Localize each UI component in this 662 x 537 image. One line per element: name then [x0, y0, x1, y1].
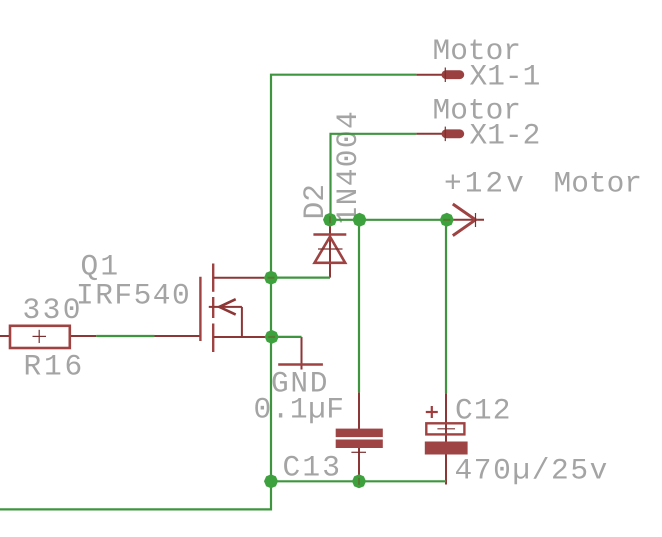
svg-text:R16: R16 — [24, 350, 86, 384]
svg-text:C13: C13 — [283, 451, 343, 485]
svg-text:1N4004: 1N4004 — [331, 110, 365, 225]
svg-text:X1-2: X1-2 — [470, 119, 541, 153]
svg-text:0.1µF: 0.1µF — [254, 393, 345, 427]
svg-text:Motor: Motor — [554, 167, 643, 201]
svg-text:330: 330 — [23, 293, 83, 327]
svg-text:IRF540: IRF540 — [76, 279, 191, 313]
svg-text:X1-1: X1-1 — [470, 60, 541, 94]
svg-text:470µ/25v: 470µ/25v — [455, 454, 609, 488]
svg-text:+12v: +12v — [444, 167, 527, 201]
